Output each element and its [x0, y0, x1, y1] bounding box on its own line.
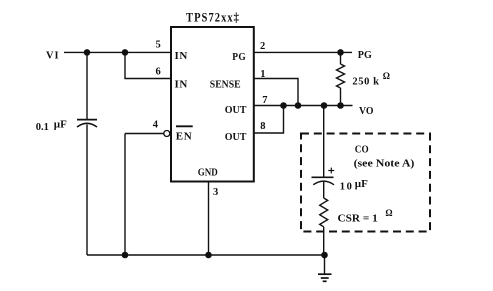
resistor CSR — [320, 198, 328, 255]
wire CO top — [323, 106, 325, 178]
wire VI to pin 5 — [64, 51, 171, 53]
wire CO to CSR — [323, 182, 325, 198]
svg-text:Ω: Ω — [385, 208, 392, 218]
svg-text:µF: µF — [54, 119, 67, 131]
svg-text:CSR = 1: CSR = 1 — [338, 212, 378, 224]
svg-text:3: 3 — [213, 187, 218, 198]
junction dot pin8 branch — [280, 102, 287, 109]
svg-text:µF: µF — [355, 178, 368, 190]
svg-text:(see Note A): (see Note A) — [354, 157, 415, 169]
wire pin3 GND — [208, 182, 210, 255]
svg-text:IN: IN — [175, 50, 188, 62]
svg-text:1: 1 — [260, 69, 265, 80]
svg-text:PG: PG — [232, 51, 246, 63]
svg-text:8: 8 — [260, 121, 265, 132]
bottom ground rail — [87, 254, 325, 256]
svg-text:OUT: OUT — [225, 131, 247, 143]
junction dot at VI/C1 — [84, 49, 91, 56]
svg-text:EN: EN — [176, 131, 192, 143]
svg-text:0.1: 0.1 — [36, 122, 49, 133]
svg-text:CO: CO — [355, 144, 369, 156]
wire pin2 PG — [254, 51, 352, 53]
junction dot GND/rail — [205, 252, 212, 259]
wire EN down to rail — [124, 134, 126, 256]
wire C1 bottom to rail — [86, 125, 88, 256]
EN inverter bubble — [164, 131, 170, 137]
svg-text:10: 10 — [340, 182, 354, 193]
junction dot sense branch — [295, 102, 302, 109]
svg-text:Ω: Ω — [383, 71, 390, 81]
op-amp U1 TPS72xx IC body — [171, 27, 254, 182]
wire pin8 OUT jog — [254, 106, 284, 134]
svg-text:250 k: 250 k — [352, 77, 379, 88]
wire pin7 OUT to VO — [254, 105, 353, 107]
capacitor CO 10uF polarized — [312, 168, 335, 185]
svg-text:6: 6 — [156, 66, 161, 77]
svg-text:5: 5 — [156, 39, 161, 50]
svg-text:OUT: OUT — [225, 104, 247, 116]
resistor R1 250k — [337, 52, 345, 105]
capacitor C1 0.1uF — [77, 120, 97, 127]
svg-text:PG: PG — [358, 49, 372, 61]
svg-text:SENSE: SENSE — [210, 78, 241, 90]
label EN with overline — [176, 125, 193, 127]
svg-text:7: 7 — [262, 95, 267, 106]
ground symbol — [318, 255, 332, 281]
junction dot CSR/rail — [321, 252, 328, 259]
svg-text:VO: VO — [359, 105, 374, 117]
svg-text:2: 2 — [260, 41, 265, 52]
junction dot at VI/EN branch — [122, 49, 129, 56]
svg-text:IN: IN — [175, 78, 188, 90]
svg-text:4: 4 — [153, 120, 159, 131]
junction dot R1 bottom — [337, 102, 344, 109]
junction dot CO branch — [321, 102, 328, 109]
dashed box CO network — [301, 134, 430, 232]
wire pin1 SENSE — [254, 79, 298, 106]
junction dot PG/R1 — [337, 49, 344, 56]
svg-text:VI: VI — [46, 50, 60, 62]
svg-text:TPS72xx‡: TPS72xx‡ — [186, 10, 240, 25]
svg-text:GND: GND — [198, 167, 218, 179]
wire EN pin4 — [125, 133, 164, 135]
junction dot EN/rail — [122, 252, 129, 259]
wire pin6 jog — [125, 52, 171, 78]
wire C1 top — [86, 52, 88, 119]
